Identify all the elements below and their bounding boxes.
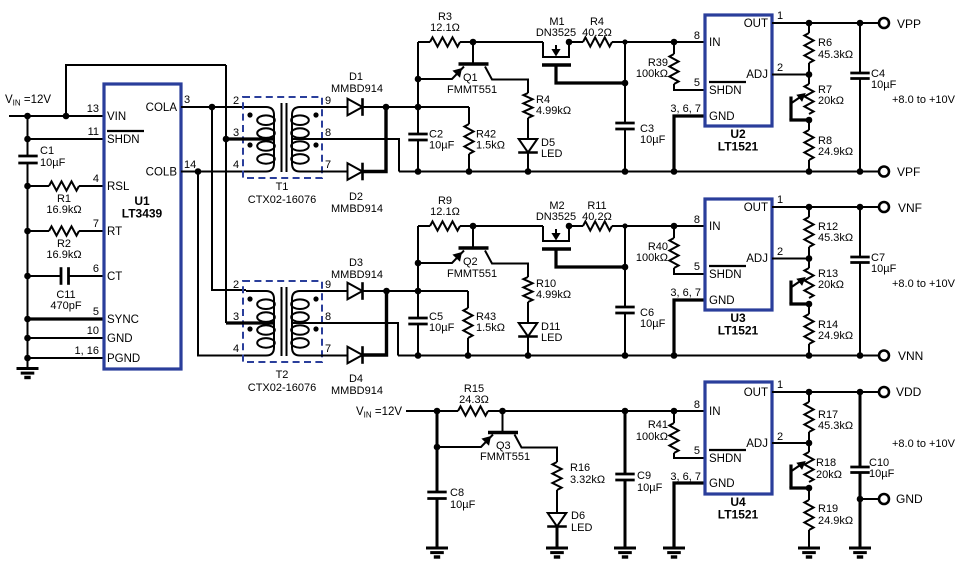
svg-text:+8.0 to +10V: +8.0 to +10V [892, 278, 956, 290]
wire C11 right [69, 275, 105, 277]
wire R16 to D6 [556, 490, 558, 513]
transformer T1 primary winding [246, 107, 274, 172]
wire R9 right [460, 225, 473, 227]
svg-text:2: 2 [233, 279, 239, 291]
wire R39 top [673, 42, 675, 54]
junction COLB [195, 168, 202, 175]
Q2 emitter arrow [452, 252, 462, 262]
wire SYNC to rail [28, 317, 105, 320]
svg-text:1: 1 [777, 379, 783, 391]
transistor Q3 [502, 411, 504, 433]
svg-text:16.9kΩ: 16.9kΩ [46, 204, 81, 216]
svg-text:10µF: 10µF [871, 263, 897, 275]
wire COLA to T1 pin 2 [181, 106, 246, 108]
diode D6 LED [548, 513, 567, 527]
svg-text:R41: R41 [648, 419, 668, 431]
svg-text:13: 13 [87, 103, 99, 115]
svg-text:VNF: VNF [898, 201, 922, 215]
Q1 emitter arrow [452, 68, 462, 78]
svg-text:ADJ: ADJ [746, 253, 768, 265]
wire U2 ADJ [772, 74, 809, 76]
svg-text:VIN =12V: VIN =12V [356, 406, 402, 420]
wire C9 to ground [624, 480, 627, 548]
diode D5 LED [519, 139, 538, 153]
capacitor C10 [850, 466, 869, 469]
wire middle output node across [418, 290, 468, 292]
junction C7 rail [857, 352, 864, 359]
wire R4 to U2 IN [612, 41, 704, 43]
svg-text:VDD: VDD [896, 385, 922, 399]
diode D4 [348, 347, 363, 364]
resistor R8 [804, 130, 813, 160]
potentiometer R18 [804, 452, 813, 482]
junction C6 rail [622, 352, 629, 359]
junction IN node riser mid [622, 223, 627, 228]
svg-text:24.9kΩ: 24.9kΩ [818, 330, 853, 342]
wire Q1 emitter [418, 67, 464, 80]
wire middle return rail [398, 355, 879, 357]
svg-text:7: 7 [325, 343, 331, 355]
transformer T2 secondary winding [292, 291, 348, 356]
junction SHDN rail [24, 136, 31, 143]
svg-text:IN: IN [709, 37, 721, 49]
junction R41 tap [671, 408, 678, 415]
wire Q3 emitter [437, 435, 493, 448]
svg-text:GND: GND [896, 492, 923, 506]
transistor Q1 [472, 42, 474, 64]
ground symbol C8 [426, 547, 448, 550]
svg-text:45.3kΩ: 45.3kΩ [818, 232, 853, 244]
wire M1 source [556, 65, 625, 83]
junction R39 tap [671, 39, 678, 46]
resistor R1 [49, 181, 79, 190]
svg-text:45.3kΩ: 45.3kΩ [818, 420, 853, 432]
node VNN terminal [879, 351, 889, 361]
wire D1 cathode to output node [363, 106, 419, 108]
junction M1 gate [566, 39, 573, 46]
transformer T1 box [243, 97, 322, 178]
wire left ground rail lower [27, 163, 29, 358]
wire T2 pin 3 center tap [226, 321, 274, 324]
op-amp U4 box [705, 382, 772, 494]
wire COLB to T1 pin 4 [181, 171, 246, 173]
svg-text:12.1Ω: 12.1Ω [430, 206, 460, 218]
wire T1 pin 8 center tap [292, 139, 399, 172]
svg-text:GND: GND [709, 295, 735, 307]
transistor Q2 [472, 226, 474, 248]
T2 polarity dots [247, 296, 252, 301]
svg-text:C9: C9 [637, 470, 651, 482]
svg-text:R18: R18 [816, 457, 836, 469]
wire COLB down to T2 pin 4 [198, 172, 246, 356]
wire C7 riser [859, 207, 861, 257]
wire U3 GND drop [674, 300, 704, 356]
wire R43 drop [467, 291, 469, 308]
svg-text:D1: D1 [349, 71, 363, 83]
svg-text:6: 6 [93, 263, 99, 275]
potentiometer R7 [804, 84, 813, 114]
junction Q3 emitter tap [434, 444, 441, 451]
junction R2 rail [24, 228, 31, 235]
wire Q2 collector [485, 251, 528, 278]
wire PGND to rail [28, 357, 105, 359]
svg-text:CT: CT [107, 271, 122, 283]
svg-text:SYNC: SYNC [107, 314, 139, 326]
svg-text:100kΩ: 100kΩ [636, 431, 668, 443]
resistor R12 [804, 217, 813, 247]
transistor M2 [543, 226, 569, 241]
capacitor C2 [408, 133, 427, 136]
transformer T1 core [281, 103, 283, 172]
junction M2 gate [566, 223, 573, 230]
wire U3 ADJ [772, 258, 809, 260]
junction C7 top [857, 204, 864, 211]
wire R1 right [79, 185, 104, 187]
transistor M1 [543, 42, 569, 57]
wire D4 cathode up to output node [363, 291, 387, 355]
node VPP terminal [879, 18, 889, 28]
svg-text:3: 3 [184, 94, 190, 106]
svg-text:7: 7 [325, 159, 331, 171]
wire R15 to U4 IN [488, 410, 704, 412]
wire output riser to R9 [417, 226, 419, 291]
resistor R42 [464, 124, 473, 154]
resistor R6 [804, 33, 813, 63]
op-amp U1 box [104, 84, 181, 369]
wire C10 riser [859, 392, 862, 467]
junction Q1 emitter tap [415, 76, 422, 83]
svg-text:470pF: 470pF [50, 300, 81, 312]
wire C8 riser [436, 411, 439, 492]
ground symbol C9 [614, 547, 636, 550]
wire U4 GND drop [674, 483, 704, 548]
svg-text:10µF: 10µF [869, 468, 895, 480]
svg-text:5: 5 [694, 77, 700, 89]
wire rail to ground [27, 358, 29, 368]
junction output node at C2 [415, 104, 422, 111]
wire R9 to M2 [473, 225, 543, 227]
junction C4 rail [857, 168, 864, 175]
wire R2 left [28, 230, 50, 232]
svg-text:VPP: VPP [897, 17, 921, 31]
wire C5 to rail [417, 324, 419, 356]
wire top feed down to transformers [225, 65, 227, 323]
wire COLA down to T2 pin 2 [212, 107, 246, 290]
junction GND terminal tap [857, 496, 864, 503]
svg-text:1, 16: 1, 16 [75, 345, 99, 357]
svg-text:GND: GND [709, 111, 735, 123]
resistor R16 [552, 462, 561, 490]
junction R6 top [806, 20, 813, 27]
svg-text:5: 5 [93, 306, 99, 318]
svg-text:1.5kΩ: 1.5kΩ [476, 140, 505, 152]
node VNF terminal [879, 202, 889, 212]
svg-text:2: 2 [777, 246, 783, 258]
svg-text:24.9kΩ: 24.9kΩ [818, 146, 853, 158]
transformer T1 secondary winding [292, 107, 348, 172]
svg-text:+8.0 to +10V: +8.0 to +10V [892, 438, 956, 450]
svg-text:ADJ: ADJ [746, 438, 768, 450]
svg-text:24.3Ω: 24.3Ω [459, 394, 489, 406]
svg-text:20kΩ: 20kΩ [818, 95, 844, 107]
transformer T2 core [281, 287, 283, 356]
wire R2 right [79, 230, 104, 232]
junction U2 GND rail [671, 168, 678, 175]
wire M2 to R11 [569, 225, 583, 227]
resistor R40 [669, 238, 678, 268]
transformer T2 primary winding [246, 291, 274, 356]
svg-text:4: 4 [233, 343, 239, 355]
svg-text:100kΩ: 100kΩ [636, 252, 668, 264]
ground symbol C10 [849, 547, 871, 550]
resistor R2 [49, 226, 79, 235]
svg-text:7: 7 [93, 218, 99, 230]
svg-text:CTX02-16076: CTX02-16076 [248, 194, 317, 206]
wire VIN riser to top feed [66, 65, 226, 116]
wire C4 to rail [859, 79, 861, 172]
junction D3 cathode join [383, 288, 390, 295]
junction M2 source at C6 [622, 264, 629, 271]
svg-text:11: 11 [88, 126, 99, 138]
svg-text:3: 3 [233, 311, 239, 323]
wire R41 top [673, 411, 675, 423]
wire U2 GND drop [674, 116, 704, 172]
junction C8 tap [434, 408, 441, 415]
svg-text:1.5kΩ: 1.5kΩ [476, 322, 505, 334]
junction SYNC rail [24, 316, 31, 323]
diode D2 [348, 163, 363, 180]
svg-text:2: 2 [233, 95, 239, 107]
wire D3 cathode to output node [363, 290, 419, 292]
svg-text:40.2Ω: 40.2Ω [582, 211, 612, 223]
svg-text:DN3525: DN3525 [536, 211, 576, 223]
svg-text:T1: T1 [276, 181, 289, 193]
wire Q3 collector [515, 435, 558, 463]
svg-text:SHDN: SHDN [709, 85, 742, 97]
wire R17 bottom [808, 432, 810, 452]
wire C2 to rail [417, 140, 419, 172]
svg-text:GND: GND [709, 478, 735, 490]
svg-text:R19: R19 [818, 503, 838, 515]
junction R7 wiper bottom [806, 117, 813, 124]
svg-text:COLA: COLA [146, 102, 178, 114]
ground symbol U1 [17, 367, 39, 370]
svg-text:VIN =12V: VIN =12V [5, 94, 51, 108]
svg-text:20kΩ: 20kΩ [818, 279, 844, 291]
junction R42 rail [466, 168, 473, 175]
junction C4 top [857, 20, 864, 27]
svg-text:8: 8 [694, 214, 700, 226]
junction D1 cathode join [383, 104, 390, 111]
wire R8 bottom [808, 160, 810, 172]
node VDD terminal [879, 387, 889, 397]
capacitor C9 [615, 473, 634, 476]
resistor R14 [804, 314, 813, 344]
svg-text:10µF: 10µF [637, 482, 663, 494]
svg-text:100kΩ: 100kΩ [636, 68, 668, 80]
svg-text:3: 3 [233, 127, 239, 139]
svg-text:T2: T2 [276, 369, 289, 381]
svg-text:SHDN: SHDN [709, 269, 742, 281]
resistor R15 [458, 406, 488, 415]
wire R12 bottom [808, 247, 810, 268]
svg-text:LT1521: LT1521 [718, 508, 759, 522]
wire R3 right [460, 41, 473, 43]
junction D5 rail [525, 168, 532, 175]
junction C9 tap [622, 408, 629, 415]
svg-text:OUT: OUT [744, 202, 768, 214]
svg-text:10µF: 10µF [429, 140, 455, 152]
wire R14 top [808, 304, 810, 314]
svg-text:D4: D4 [349, 373, 363, 385]
svg-text:RT: RT [107, 226, 122, 238]
resistor R11 [583, 221, 612, 230]
resistor R17 [804, 402, 813, 432]
capacitor C5 [408, 317, 427, 320]
junction D11 rail [525, 352, 532, 359]
potentiometer R13 [804, 268, 813, 298]
svg-text:14: 14 [184, 159, 196, 171]
junction R40 tap [671, 223, 678, 230]
svg-text:12.1Ω: 12.1Ω [430, 22, 460, 34]
junction R17 top [806, 389, 813, 396]
junction VIN riser [63, 113, 70, 120]
svg-text:3, 6, 7: 3, 6, 7 [670, 471, 701, 483]
svg-text:10µF: 10µF [640, 318, 666, 330]
wire R42 bottom [468, 154, 470, 172]
capacitor C4 [850, 72, 869, 75]
svg-text:3, 6, 7: 3, 6, 7 [670, 103, 701, 115]
svg-text:IN: IN [709, 221, 721, 233]
svg-text:FMMT551: FMMT551 [480, 451, 530, 463]
wire R39 to SHDN [674, 84, 704, 90]
wire M2 source [556, 249, 625, 267]
junction C11 rail [24, 273, 31, 280]
svg-text:SHDN: SHDN [107, 134, 140, 146]
svg-text:LED: LED [571, 522, 592, 534]
wire R41 to SHDN [674, 453, 704, 458]
capacitor C8 [427, 491, 446, 494]
wire C6 riser [624, 226, 626, 307]
op-amp U2 box [705, 15, 772, 126]
svg-text:COLB: COLB [146, 167, 178, 179]
wire U2 OUT to VPP [772, 22, 879, 24]
svg-text:Q1: Q1 [463, 72, 478, 84]
node VPF terminal [879, 167, 889, 177]
svg-text:16.9kΩ: 16.9kΩ [46, 249, 81, 261]
wire Q1 collector [485, 67, 528, 94]
wire D6 to ground [556, 527, 559, 549]
svg-text:Q2: Q2 [463, 256, 478, 268]
svg-text:5: 5 [694, 445, 700, 457]
junction R1 rail [24, 183, 31, 190]
wire M1 to R4 [569, 41, 583, 43]
svg-text:VPF: VPF [897, 165, 920, 179]
wire GND to rail [28, 337, 105, 339]
svg-text:C1: C1 [40, 145, 54, 157]
svg-text:10µF: 10µF [450, 499, 476, 511]
svg-text:LED: LED [541, 148, 562, 160]
wire top return rail [399, 171, 879, 173]
diode D3 [348, 283, 363, 300]
T1 polarity dots [247, 112, 252, 117]
wire C2 top [417, 107, 419, 134]
wire output riser to R3 [417, 42, 419, 107]
resistor R41 [669, 423, 678, 453]
svg-text:OUT: OUT [744, 387, 768, 399]
svg-text:D3: D3 [349, 257, 363, 269]
wire VIN bottom feed [406, 410, 458, 412]
wire R17 top [808, 392, 810, 402]
node VIN input stub [9, 115, 104, 117]
wire R43 bottom [467, 338, 469, 356]
junction IN node riser [622, 39, 627, 44]
wire C4 riser [859, 23, 861, 73]
wire R11 to U3 IN [612, 225, 704, 227]
wire D5 to rail [527, 153, 529, 172]
wire C9 riser [624, 411, 627, 474]
svg-text:LED: LED [541, 332, 562, 344]
capacitor C6 [615, 306, 634, 309]
wire C6 to rail [624, 313, 626, 356]
wire R6 bottom [808, 63, 810, 84]
svg-text:R6: R6 [818, 37, 832, 49]
svg-text:4: 4 [93, 173, 99, 185]
junction Q2 base [470, 223, 477, 230]
wire C11 left [28, 275, 62, 277]
svg-text:3, 6, 7: 3, 6, 7 [670, 287, 701, 299]
svg-text:5: 5 [694, 261, 700, 273]
wire SHDN to rail [28, 138, 105, 140]
svg-text:10µF: 10µF [429, 322, 455, 334]
wire D11 to rail [527, 337, 529, 356]
junction R12 top [806, 204, 813, 211]
svg-text:MMBD914: MMBD914 [331, 203, 383, 215]
svg-text:LT1521: LT1521 [718, 140, 759, 154]
wire top output node across [418, 106, 469, 108]
svg-text:8: 8 [325, 311, 331, 323]
svg-text:24.9kΩ: 24.9kΩ [818, 515, 853, 527]
wire C10 to ground [859, 473, 862, 549]
svg-text:PGND: PGND [107, 353, 140, 365]
svg-text:10µF: 10µF [40, 157, 66, 169]
junction C10 top [857, 389, 864, 396]
wire C8 to ground [436, 499, 439, 549]
junction GND rail [24, 335, 31, 342]
wire R19 top [808, 488, 810, 500]
wire R8 top [808, 120, 810, 130]
svg-text:10µF: 10µF [640, 134, 666, 146]
wire R9 left [418, 225, 430, 227]
wire R42 drop [468, 107, 470, 124]
svg-text:10: 10 [87, 325, 99, 337]
wire U4 OUT to VDD [772, 391, 879, 393]
resistor R9 [430, 221, 460, 230]
svg-text:IN: IN [709, 406, 721, 418]
resistor R19 [804, 500, 813, 530]
junction C3 rail [622, 168, 629, 175]
diode D11 LED [519, 323, 538, 337]
wire U3 OUT to VNF [772, 206, 879, 208]
junction C5 rail [415, 352, 422, 359]
wire R6 top [808, 23, 810, 33]
svg-text:4: 4 [233, 159, 239, 171]
svg-text:FMMT551: FMMT551 [447, 268, 497, 280]
junction ADJ node mid [806, 255, 813, 262]
wire C3 riser [624, 42, 626, 123]
wire C5 top [417, 291, 419, 318]
resistor R10 [523, 277, 532, 302]
